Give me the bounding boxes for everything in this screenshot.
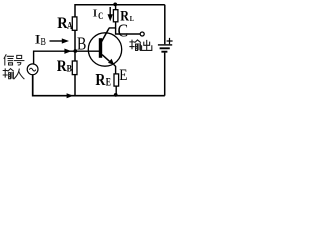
信 [4,55,13,65]
svg-text:E: E [106,76,112,89]
svg-text:B: B [67,63,72,74]
wire RL to top rail [115,5,117,10]
wire top rail [75,5,165,17]
svg-text:R: R [120,7,129,23]
svg-text:A: A [67,20,73,31]
svg-text:C: C [118,21,128,41]
label shu-chu (output) [130,40,152,51]
wire emitter to RE [114,64,116,74]
battery cell lines [158,44,172,46]
出 [142,40,152,50]
output terminal [140,32,144,36]
svg-text:I: I [92,8,98,20]
输 [3,69,13,79]
svg-text:B: B [41,36,46,48]
resistor RA [72,17,77,30]
transistor base bar [99,38,102,58]
wire output tap [116,28,140,34]
battery wire top [164,5,166,45]
svg-text:R: R [57,58,67,75]
wire RB to bottom rail [74,75,76,96]
arrow IB annotation [50,40,63,42]
label shu-ru (input) [3,69,24,79]
battery plus [167,38,173,44]
resistor RL [113,10,118,22]
emitter lead [102,55,110,62]
wire base [34,51,100,64]
resistor RE [114,74,119,86]
svg-text:L: L [130,15,134,24]
collector lead [102,28,110,42]
wire bottom rail [33,75,165,96]
svg-text:C: C [98,10,103,21]
wire RA to base junction [74,30,76,61]
resistor RB [72,61,77,75]
node B junction dot [73,49,77,53]
入 [14,69,24,79]
svg-text:E: E [119,67,127,84]
junction dot top rail [113,3,117,7]
号 [14,55,23,65]
transistor Q1 circle [88,33,121,66]
wire RE to bottom rail [115,86,117,96]
输 [130,40,140,50]
arrowhead on base wire [64,49,71,54]
wire collector jog to RL column [109,22,116,28]
junction dot bottom rail [114,93,118,97]
arrow IC [109,7,111,15]
arrowhead on bottom rail [67,93,74,98]
label xin-hao (signal) [4,55,24,65]
sine symbol [29,68,35,71]
svg-text:R: R [95,71,106,90]
svg-text:B: B [77,35,86,54]
battery wire bottom [164,53,166,96]
signal source circle [27,64,38,75]
emitter arrowhead [108,59,114,65]
